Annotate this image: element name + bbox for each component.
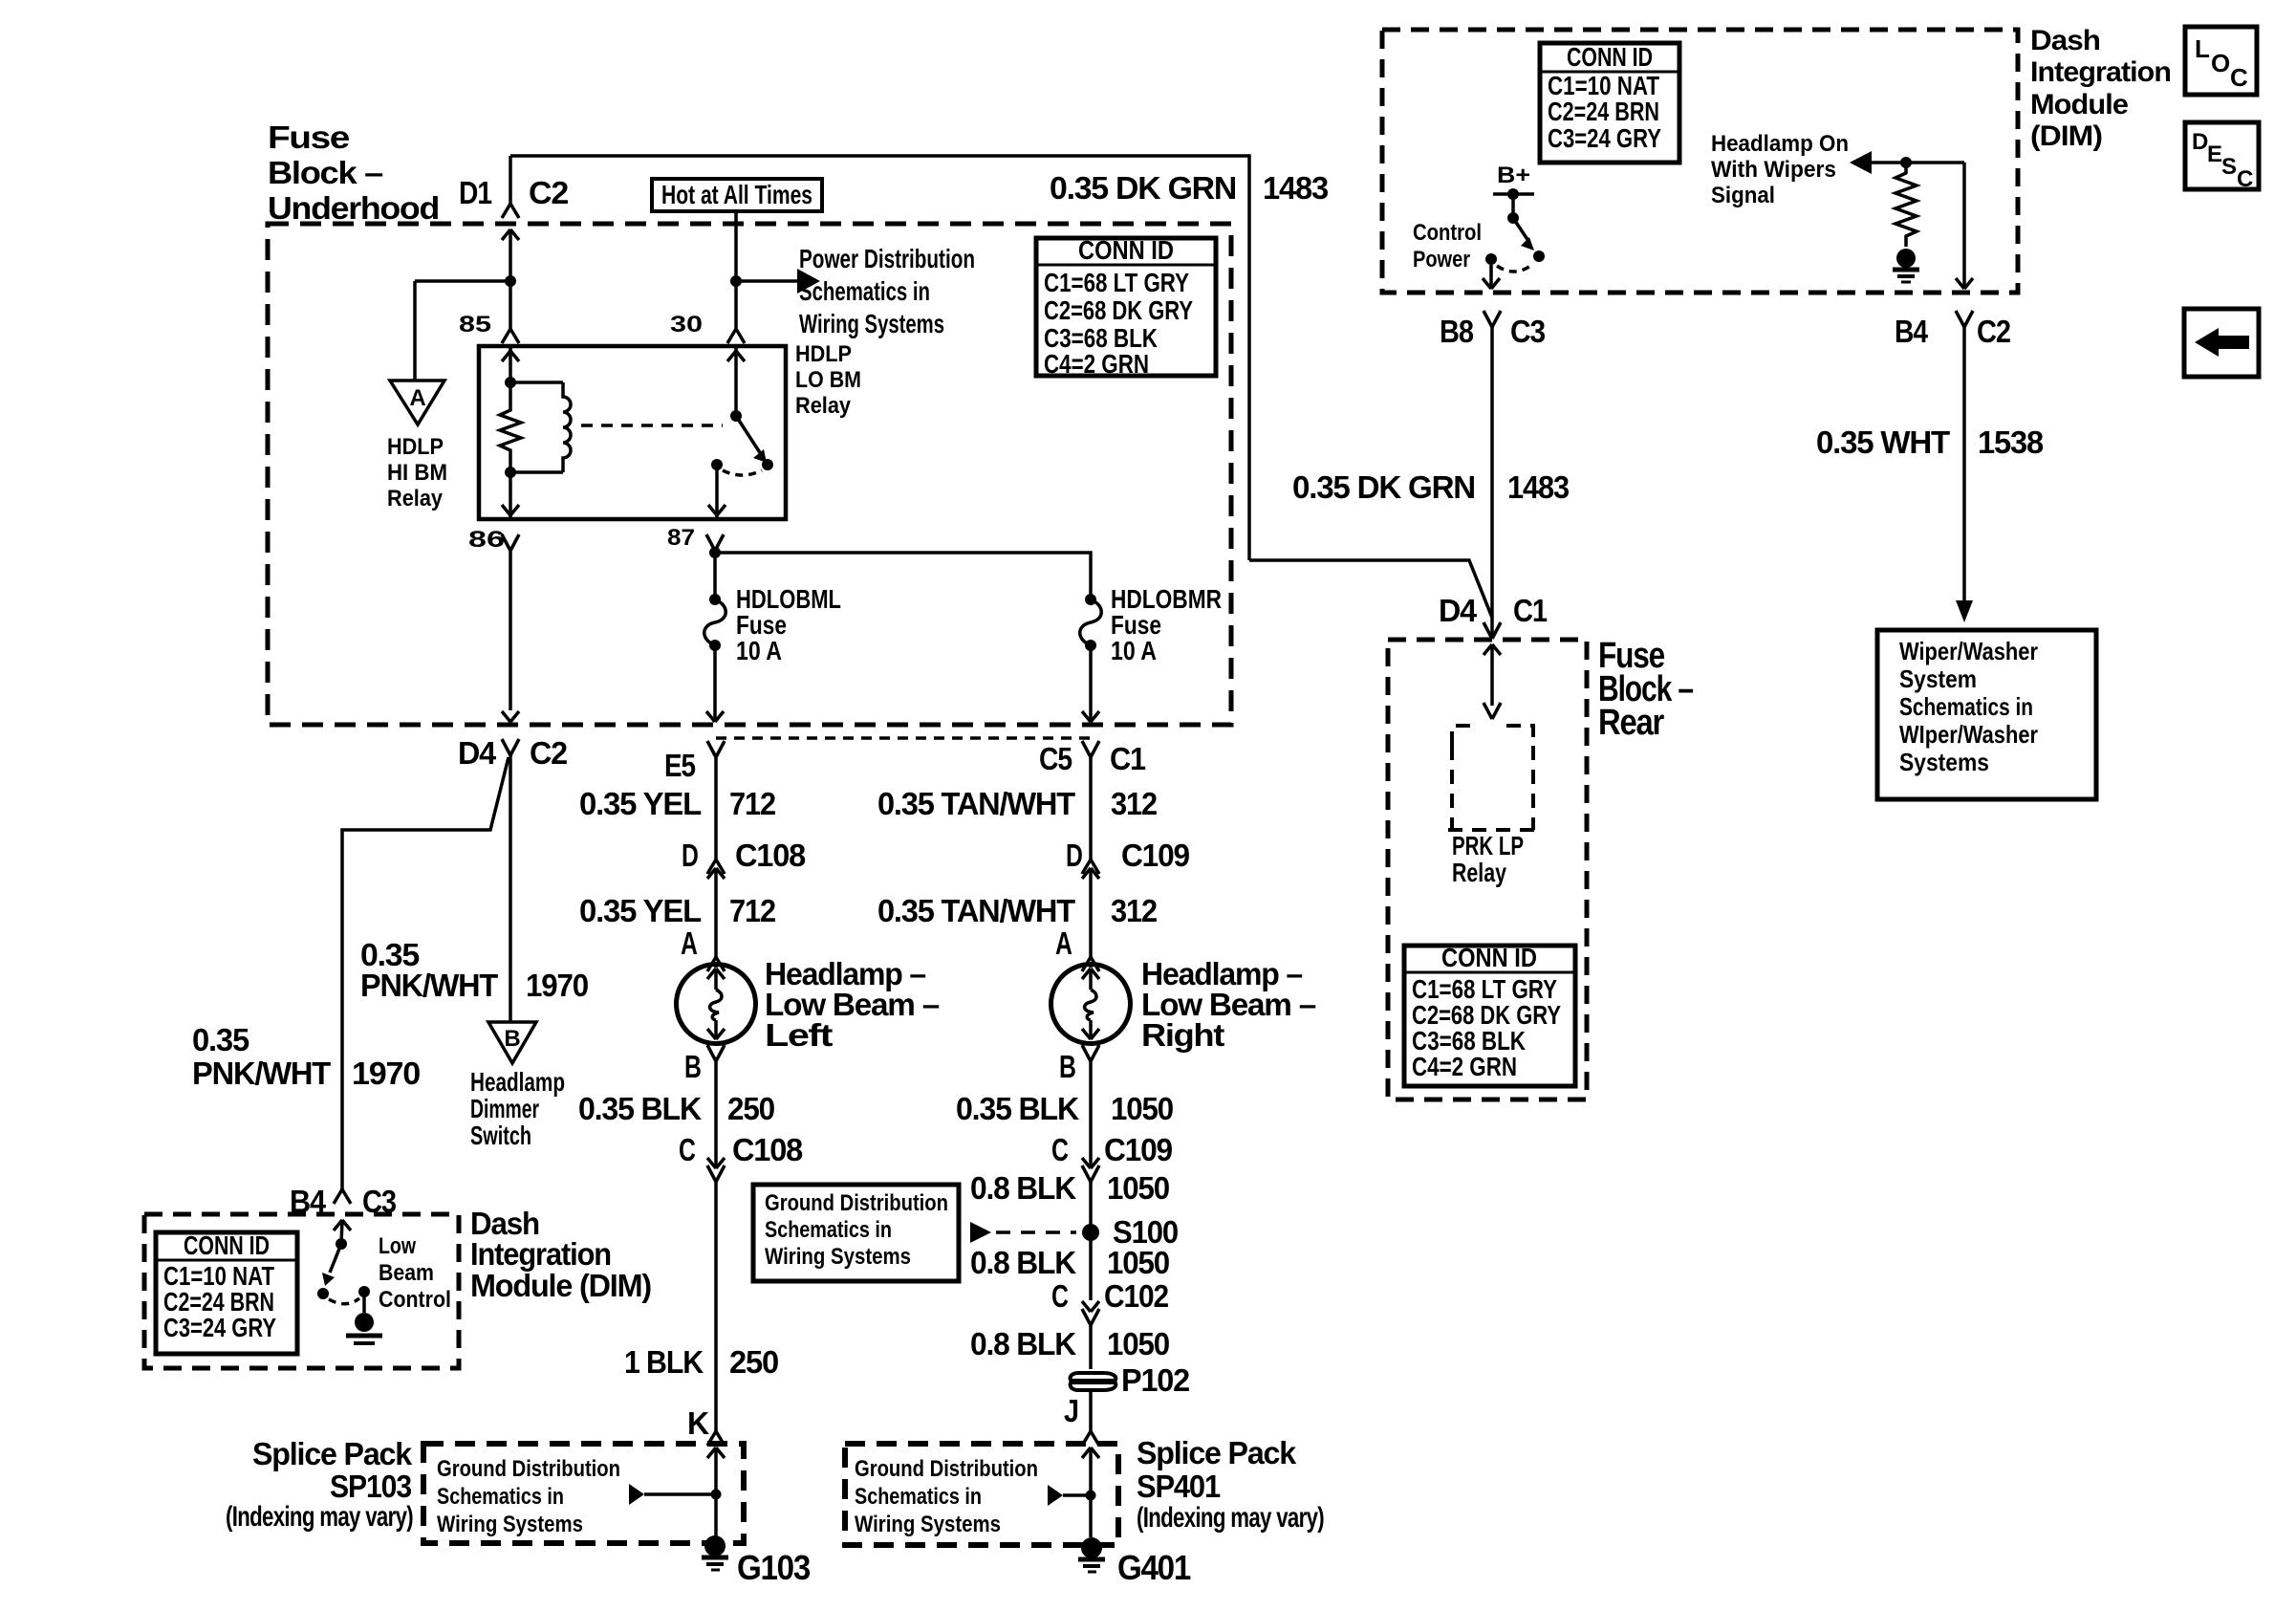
- ground symbol in DIM: [1893, 249, 1919, 282]
- label Power Distribution Schematics: [799, 244, 975, 338]
- svg-text:Splice Pack: Splice Pack: [1137, 1435, 1297, 1470]
- svg-text:HI BM: HI BM: [387, 460, 447, 486]
- svg-text:(Indexing may vary): (Indexing may vary): [1137, 1502, 1324, 1534]
- svg-text:C: C: [2230, 63, 2248, 92]
- svg-text:B: B: [684, 1049, 701, 1084]
- svg-text:Switch: Switch: [470, 1121, 531, 1150]
- box back arrow: [2184, 309, 2259, 377]
- wire 0.35 WHT 1538: [1816, 327, 2044, 622]
- wire 0.35 TAN/WHT 312 upper: [877, 757, 1158, 860]
- svg-text:1050: 1050: [1107, 1326, 1169, 1361]
- arrow branch SP103: [629, 1484, 716, 1505]
- svg-text:85: 85: [459, 312, 491, 337]
- label 0.35 YEL 712 lower: [579, 893, 776, 928]
- node junction pin30 with branch arrow: [730, 269, 820, 294]
- svg-text:0.8 BLK: 0.8 BLK: [970, 1245, 1076, 1280]
- svg-text:0.35: 0.35: [192, 1022, 249, 1057]
- connector face dashed line: [716, 736, 1091, 740]
- svg-text:0.35 BLK: 0.35 BLK: [578, 1091, 702, 1126]
- label pin D1 C2: [459, 175, 569, 210]
- connector D C109: [1066, 838, 1190, 957]
- svg-text:Ground Distribution: Ground Distribution: [437, 1456, 620, 1482]
- svg-text:PNK/WHT: PNK/WHT: [360, 968, 498, 1003]
- label Splice Pack SP401: [1137, 1435, 1324, 1534]
- svg-text:HDLP: HDLP: [795, 341, 852, 367]
- svg-text:Control: Control: [379, 1287, 451, 1313]
- splice pack SP103 dashed box: [423, 1444, 744, 1543]
- svg-text:Schematics in: Schematics in: [855, 1484, 982, 1510]
- DIM bottom dashed outline: [144, 1214, 459, 1368]
- connector D4 C2: [458, 735, 568, 771]
- box LOC: [2185, 27, 2257, 95]
- svg-text:Schematics in: Schematics in: [799, 276, 930, 306]
- wire below fuse HDLOBMR: [1082, 645, 1099, 722]
- svg-text:C1: C1: [1513, 593, 1548, 628]
- svg-text:C5: C5: [1039, 741, 1072, 776]
- svg-text:1050: 1050: [1111, 1091, 1173, 1126]
- svg-text:Headlamp: Headlamp: [470, 1067, 565, 1097]
- svg-text:C4=2 GRN: C4=2 GRN: [1412, 1052, 1517, 1081]
- wire junction to triangle A: [415, 275, 516, 381]
- wire pin J: [1064, 1392, 1099, 1446]
- svg-text:PRK LP: PRK LP: [1452, 831, 1524, 860]
- svg-text:0.35 WHT: 0.35 WHT: [1816, 425, 1950, 460]
- svg-text:O: O: [2211, 49, 2230, 77]
- svg-text:Integration: Integration: [2030, 56, 2171, 88]
- svg-text:D4: D4: [458, 735, 497, 771]
- wire B4 C2 inside DIM: [1956, 163, 1973, 289]
- svg-text:Low: Low: [379, 1233, 416, 1259]
- lamp headlamp low beam right: [1051, 965, 1131, 1044]
- svg-text:0.8 BLK: 0.8 BLK: [970, 1170, 1076, 1206]
- svg-text:CONN ID: CONN ID: [184, 1230, 270, 1260]
- svg-text:312: 312: [1111, 786, 1158, 821]
- svg-text:SP401: SP401: [1137, 1469, 1221, 1504]
- switch low beam control: [317, 1220, 382, 1343]
- wire entering fuse block arrow: [502, 229, 519, 281]
- svg-text:System: System: [1899, 664, 1977, 693]
- connector C C108: [679, 1132, 803, 1431]
- svg-text:B: B: [1059, 1049, 1075, 1084]
- label 0.35 PNK/WHT 1970 left: [192, 1022, 420, 1091]
- wire pin 87 leg: [706, 534, 724, 599]
- box Hot at All Times: [652, 179, 822, 211]
- svg-text:S: S: [2221, 154, 2237, 180]
- label headlamp left: [765, 956, 940, 1053]
- label pin 87: [667, 525, 695, 551]
- resistor in DIM: [1895, 163, 1917, 247]
- svg-text:B4: B4: [1895, 314, 1929, 349]
- box DESC: [2185, 122, 2259, 192]
- svg-text:Power: Power: [1413, 247, 1470, 272]
- connector D4 C1: [1439, 593, 1548, 639]
- label Low Beam Control: [379, 1233, 451, 1313]
- fuse block rear dashed outline: [1388, 640, 1587, 1099]
- svg-text:Power Distribution: Power Distribution: [799, 244, 975, 273]
- label Dash Integration Module DIM: [2030, 25, 2171, 152]
- svg-text:L: L: [2195, 34, 2210, 63]
- svg-text:C: C: [1051, 1278, 1068, 1314]
- svg-text:0.35 BLK: 0.35 BLK: [956, 1091, 1079, 1126]
- svg-text:C2=68 DK GRY: C2=68 DK GRY: [1044, 295, 1193, 325]
- svg-text:10 A: 10 A: [736, 636, 782, 665]
- svg-text:250: 250: [729, 1344, 778, 1380]
- svg-text:Beam: Beam: [379, 1260, 434, 1286]
- svg-text:C108: C108: [735, 838, 806, 873]
- ground G401: [1078, 1537, 1191, 1587]
- svg-text:D4: D4: [1439, 593, 1478, 628]
- svg-text:A: A: [681, 925, 697, 961]
- svg-text:0.35 YEL: 0.35 YEL: [579, 786, 702, 821]
- triangle A HDLP HI BM Relay: [387, 381, 447, 512]
- svg-text:Splice Pack: Splice Pack: [252, 1436, 413, 1471]
- wire D1 C2 drop: [502, 156, 519, 218]
- svg-text:86: 86: [468, 527, 505, 553]
- svg-text:With Wipers: With Wipers: [1711, 157, 1836, 183]
- connector C C109: [1051, 1132, 1173, 1232]
- wire splice SP103 to ground: [707, 1448, 725, 1537]
- svg-text:Wiring Systems: Wiring Systems: [765, 1244, 911, 1270]
- svg-text:Schematics in: Schematics in: [765, 1217, 892, 1243]
- svg-text:SP103: SP103: [330, 1469, 412, 1504]
- svg-text:E5: E5: [664, 748, 696, 783]
- svg-text:1538: 1538: [1978, 425, 2044, 460]
- label Splice Pack SP103: [226, 1436, 413, 1533]
- svg-text:87: 87: [667, 525, 695, 551]
- svg-text:Wiring Systems: Wiring Systems: [799, 309, 944, 338]
- svg-text:C2: C2: [1977, 314, 2011, 349]
- relay actuation dashed link: [581, 424, 723, 427]
- splice pack SP401 dashed box: [845, 1444, 1118, 1545]
- svg-text:0.35 YEL: 0.35 YEL: [579, 893, 702, 928]
- node junction 87 branch to right fuse: [709, 547, 1091, 599]
- node splice S100: [970, 1214, 1178, 1250]
- svg-text:Block –: Block –: [268, 155, 383, 190]
- label pin 86: [468, 527, 505, 553]
- svg-text:K: K: [687, 1405, 709, 1441]
- svg-text:C3=24 GRY: C3=24 GRY: [1548, 123, 1661, 153]
- box CONN ID fuse block underhood: [1036, 235, 1216, 379]
- label Fuse Block Underhood: [268, 120, 439, 226]
- svg-text:Underhood: Underhood: [268, 190, 439, 226]
- svg-text:Module: Module: [2030, 89, 2128, 120]
- svg-text:LO BM: LO BM: [795, 367, 861, 393]
- svg-text:C: C: [1051, 1132, 1068, 1167]
- relay PRK LP dashed box: [1448, 726, 1537, 887]
- fuse HDLOBMR 10A: [1080, 584, 1222, 665]
- svg-text:C1=68 LT GRY: C1=68 LT GRY: [1044, 268, 1189, 297]
- relay coil leg pin 85: [500, 346, 521, 519]
- svg-text:Systems: Systems: [1899, 748, 1989, 776]
- svg-text:WIper/Washer: WIper/Washer: [1899, 720, 2038, 749]
- svg-text:1970: 1970: [526, 968, 588, 1003]
- svg-text:CONN ID: CONN ID: [1567, 42, 1653, 72]
- box ground distribution note: [753, 1185, 959, 1281]
- wire pin 30 feed: [727, 211, 745, 343]
- label 0.35 DK GRN 1483 top: [1050, 170, 1329, 206]
- svg-text:0.35 TAN/WHT: 0.35 TAN/WHT: [877, 786, 1075, 821]
- svg-text:250: 250: [727, 1091, 774, 1126]
- svg-text:1970: 1970: [352, 1056, 420, 1091]
- label ground distribution SP401: [855, 1456, 1038, 1537]
- label Fuse Block Rear: [1598, 636, 1693, 743]
- label 0.8 BLK 1050 third: [970, 1326, 1169, 1361]
- label pin 30: [670, 312, 703, 337]
- svg-text:Control: Control: [1413, 220, 1482, 246]
- label 0.8 BLK 1050 first: [970, 1170, 1169, 1206]
- svg-text:B+: B+: [1497, 163, 1530, 188]
- wire wiper signal arrow: [1850, 151, 1964, 174]
- svg-text:B: B: [504, 1026, 520, 1052]
- svg-text:Rear: Rear: [1598, 703, 1664, 743]
- label 1 BLK 250: [624, 1344, 778, 1380]
- label headlamp right: [1141, 956, 1316, 1053]
- svg-text:Dash: Dash: [2030, 25, 2100, 56]
- wire 0.35 DK GRN 1483 vertical: [1292, 327, 1570, 639]
- relay switch pin 30 to 87: [708, 346, 773, 519]
- svg-text:Integration: Integration: [470, 1236, 611, 1272]
- svg-text:1483: 1483: [1263, 170, 1329, 206]
- svg-text:Right: Right: [1141, 1017, 1224, 1053]
- svg-text:1483: 1483: [1507, 469, 1570, 505]
- svg-text:C3=24 GRY: C3=24 GRY: [163, 1313, 276, 1342]
- svg-text:Wiring Systems: Wiring Systems: [437, 1512, 583, 1537]
- svg-text:D1: D1: [459, 175, 492, 210]
- svg-text:C3: C3: [1510, 314, 1546, 349]
- svg-text:Hot at All Times: Hot at All Times: [661, 180, 812, 209]
- connector B4 C3: [290, 1184, 397, 1219]
- wire junction to pin 85: [502, 281, 519, 343]
- wire pin 86 to D4 C2: [502, 534, 519, 722]
- svg-text:30: 30: [670, 312, 703, 337]
- wire below fuse HDLOBML: [706, 645, 724, 722]
- grommet P102: [1071, 1362, 1190, 1398]
- svg-text:Schematics in: Schematics in: [1899, 692, 2033, 721]
- wire 0.35 YEL 712 upper: [579, 757, 776, 860]
- svg-text:C102: C102: [1104, 1278, 1169, 1314]
- svg-text:1050: 1050: [1107, 1170, 1169, 1206]
- connector C5 C1: [1039, 741, 1146, 776]
- svg-text:Relay: Relay: [795, 393, 852, 419]
- svg-text:312: 312: [1111, 893, 1158, 928]
- pin B right: [1059, 1045, 1099, 1168]
- svg-text:Dimmer: Dimmer: [470, 1094, 539, 1123]
- svg-text:PNK/WHT: PNK/WHT: [192, 1056, 331, 1091]
- svg-text:D: D: [2192, 129, 2208, 155]
- svg-text:C1: C1: [1110, 741, 1146, 776]
- wire 0.8 BLK 1050 second: [970, 1232, 1169, 1300]
- svg-text:A: A: [409, 385, 425, 411]
- svg-text:P102: P102: [1121, 1362, 1190, 1398]
- label ground distribution SP103: [437, 1456, 620, 1537]
- svg-text:CONN ID: CONN ID: [1078, 235, 1174, 265]
- svg-text:E: E: [2207, 142, 2222, 167]
- svg-text:G401: G401: [1117, 1548, 1191, 1587]
- wire DK GRN joining diagonal: [1249, 560, 1492, 618]
- svg-text:Wiring Systems: Wiring Systems: [855, 1512, 1001, 1537]
- label Control Power: [1413, 220, 1482, 272]
- pin K label: [687, 1405, 725, 1446]
- label 0.35 TAN/WHT 312 lower: [877, 893, 1158, 928]
- arrow branch SP401: [1048, 1485, 1091, 1506]
- connector C C102: [1051, 1278, 1169, 1369]
- svg-text:(Indexing may vary): (Indexing may vary): [226, 1501, 413, 1533]
- connector B4 C2: [1895, 311, 2011, 349]
- svg-text:C109: C109: [1121, 838, 1190, 873]
- relay coil winding: [510, 382, 571, 472]
- svg-text:Signal: Signal: [1711, 183, 1775, 208]
- svg-text:A: A: [1055, 925, 1072, 961]
- svg-text:Relay: Relay: [387, 486, 444, 512]
- label 0.35 BLK 1050: [956, 1091, 1173, 1126]
- connector D C108: [682, 838, 806, 957]
- svg-text:0.8 BLK: 0.8 BLK: [970, 1326, 1076, 1361]
- box wiper washer system schematics: [1877, 630, 2096, 799]
- svg-text:C: C: [2237, 166, 2253, 192]
- svg-text:Module (DIM): Module (DIM): [470, 1268, 651, 1303]
- svg-text:Ground Distribution: Ground Distribution: [765, 1190, 948, 1216]
- wire into fuse block rear: [1484, 644, 1501, 719]
- wire 0.35 DK GRN top run: [510, 156, 1249, 560]
- box CONN ID DIM: [1540, 42, 1679, 163]
- svg-text:HDLP: HDLP: [387, 434, 444, 460]
- svg-text:712: 712: [729, 893, 776, 928]
- triangle B headlamp dimmer switch: [470, 1022, 565, 1150]
- svg-text:C108: C108: [732, 1132, 803, 1167]
- ground G103: [702, 1535, 810, 1587]
- svg-text:0.35 DK GRN: 0.35 DK GRN: [1050, 170, 1236, 206]
- svg-text:Left: Left: [765, 1017, 834, 1053]
- svg-text:Fuse: Fuse: [268, 120, 350, 155]
- svg-text:(DIM): (DIM): [2030, 120, 2102, 152]
- pin A left headlamp: [681, 925, 725, 971]
- label 0.35 PNK/WHT 1970 dimmer: [360, 937, 588, 1003]
- svg-text:712: 712: [729, 786, 776, 821]
- svg-text:CONN ID: CONN ID: [1441, 943, 1537, 972]
- label 0.35 BLK 250: [578, 1091, 774, 1126]
- connector B8 C3: [1440, 311, 1546, 349]
- connector E5: [664, 741, 725, 783]
- svg-text:D: D: [1066, 838, 1082, 873]
- svg-text:1050: 1050: [1107, 1245, 1169, 1280]
- svg-text:0.35 DK GRN: 0.35 DK GRN: [1292, 469, 1475, 505]
- svg-text:C2=24 BRN: C2=24 BRN: [1548, 97, 1659, 126]
- label Headlamp On With Wipers Signal: [1711, 131, 1849, 208]
- svg-text:0.35 TAN/WHT: 0.35 TAN/WHT: [877, 893, 1075, 928]
- wire splice SP401 to ground: [1082, 1448, 1099, 1537]
- lamp headlamp low beam left: [677, 965, 756, 1044]
- box CONN ID DIM bottom: [156, 1230, 297, 1354]
- svg-text:Headlamp On: Headlamp On: [1711, 131, 1849, 157]
- fuse block underhood dashed outline: [268, 224, 1231, 725]
- svg-text:Wiper/Washer: Wiper/Washer: [1899, 637, 2038, 665]
- pin B left: [684, 1045, 725, 1168]
- label Dash Integration Module DIM bottom: [470, 1206, 651, 1303]
- svg-text:J: J: [1064, 1393, 1078, 1428]
- svg-text:Relay: Relay: [1452, 858, 1506, 887]
- wire D4 C2 to dimmer switch: [509, 755, 512, 1022]
- svg-text:Schematics in: Schematics in: [437, 1484, 564, 1510]
- svg-text:C: C: [679, 1132, 695, 1167]
- svg-text:B8: B8: [1440, 314, 1474, 349]
- svg-text:Ground Distribution: Ground Distribution: [855, 1456, 1038, 1482]
- svg-text:10 A: 10 A: [1111, 636, 1157, 665]
- svg-text:1 BLK: 1 BLK: [624, 1344, 704, 1380]
- svg-text:C109: C109: [1104, 1132, 1173, 1167]
- DIM module dashed outline: [1382, 30, 2018, 293]
- svg-text:C4=2 GRN: C4=2 GRN: [1044, 349, 1149, 379]
- svg-text:C2: C2: [530, 735, 568, 771]
- wire branch PNK WHT to B4 C3: [342, 757, 509, 1189]
- svg-text:D: D: [682, 838, 698, 873]
- box CONN ID fuse block rear: [1404, 943, 1575, 1086]
- relay HDLP LO BM box: [479, 341, 861, 519]
- svg-text:G103: G103: [737, 1548, 810, 1587]
- fuse HDLOBML 10A: [704, 584, 841, 665]
- label pin 85: [459, 312, 491, 337]
- svg-text:C2: C2: [529, 175, 569, 210]
- pin A right headlamp: [1055, 925, 1099, 971]
- switch control power: [1483, 163, 1545, 289]
